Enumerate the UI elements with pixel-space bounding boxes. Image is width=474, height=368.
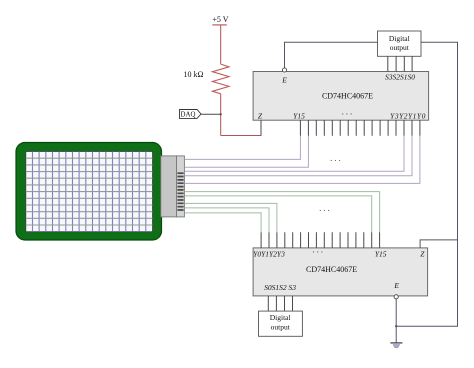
wire U2 Z to ground net: [420, 240, 457, 248]
wire column 1 (panel to U2 pin): [184, 196, 371, 232]
wire column 0 (panel to U2 pin): [184, 192, 379, 233]
svg-text:S0S1S2 S3: S0S1S2 S3: [264, 283, 296, 292]
resistor 10 kOhm: [212, 64, 229, 94]
wire row 2 (panel to U1 pin): [184, 136, 404, 172]
digital output box (bottom): [259, 311, 303, 336]
panel row electrodes: [26, 158, 153, 225]
wire U2 E to ground: [395, 299, 397, 343]
U1 select pins: [388, 56, 412, 72]
svg-text:CD74HC4067E: CD74HC4067E: [322, 92, 373, 101]
svg-text:Y0Y1Y2Y3: Y0Y1Y2Y3: [253, 249, 285, 258]
svg-text:DAQ: DAQ: [181, 112, 196, 119]
multiplexer U1 CD74HC4067E: [253, 72, 429, 121]
U1 Y pins: [300, 120, 420, 136]
svg-text:Y15: Y15: [293, 111, 305, 120]
svg-text:output: output: [271, 323, 291, 332]
wire DAQ to resistor net: [201, 113, 221, 115]
svg-text:CD74HC4067E: CD74HC4067E: [306, 265, 357, 274]
svg-text:···: ···: [341, 109, 354, 119]
svg-text:Y15: Y15: [375, 249, 387, 258]
svg-text:output: output: [390, 43, 410, 52]
wire U1 E to right-side ground net: [285, 42, 458, 326]
svg-text:E: E: [281, 76, 287, 85]
connector contacts: [177, 173, 183, 210]
svg-text:E: E: [393, 281, 399, 290]
svg-text:Y3Y2Y1Y0: Y3Y2Y1Y0: [390, 111, 426, 120]
wire corner to Z pin of U1: [221, 135, 261, 137]
wire column 2 (panel to U2 pin): [184, 203, 277, 232]
power rail tick: [212, 24, 227, 26]
touch panel active area: [26, 152, 153, 232]
svg-text:+5 V: +5 V: [212, 15, 228, 24]
svg-text:S3S2S1S0: S3S2S1S0: [385, 73, 415, 82]
svg-text:Digital: Digital: [389, 34, 410, 43]
wire row 1 (panel to U1 pin): [184, 136, 308, 168]
panel connector block: [161, 156, 177, 217]
U2 pin E node: [394, 295, 398, 299]
panel column electrodes: [33, 152, 146, 232]
wire +5V to resistor: [220, 25, 222, 64]
wire column 3 (panel to U2 pin): [184, 208, 269, 232]
DAQ tag: [180, 110, 202, 119]
svg-text:···: ···: [319, 206, 332, 216]
U2 Y pins: [261, 232, 380, 248]
U2 select pins: [268, 296, 292, 311]
wire column 4 (panel to U2 pin): [184, 213, 261, 232]
svg-text:Digital: Digital: [270, 313, 291, 322]
digital output box (top): [378, 31, 422, 56]
multiplexer U2 CD74HC4067E: [253, 248, 428, 296]
ground symbol: [390, 342, 402, 344]
wire row 3 (panel to U1 pin): [184, 136, 412, 176]
svg-text:10 kΩ: 10 kΩ: [184, 70, 204, 79]
wire row 0 (panel to U1 pin): [184, 136, 300, 160]
connector pin strip: [177, 156, 185, 217]
svg-text:···: ···: [312, 247, 325, 257]
junction DAQ/pullup: [220, 113, 222, 115]
touch panel body: [16, 143, 162, 241]
wire resistor to corner: [220, 94, 222, 136]
U1 pin E node: [282, 68, 286, 72]
junction ground net: [395, 325, 397, 327]
svg-text:···: ···: [330, 156, 343, 166]
U1 Z pin: [260, 120, 262, 136]
wire row 4 (panel to U1 pin): [184, 136, 420, 184]
